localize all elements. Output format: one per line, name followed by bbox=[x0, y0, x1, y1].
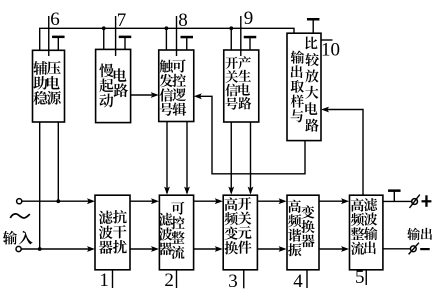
svg-text:3: 3 bbox=[228, 271, 238, 292]
svg-text:4: 4 bbox=[293, 271, 303, 292]
svg-text:9: 9 bbox=[244, 8, 254, 29]
svg-text:2: 2 bbox=[164, 270, 174, 291]
svg-text:1: 1 bbox=[99, 270, 109, 291]
svg-text:5: 5 bbox=[355, 267, 365, 288]
svg-text:6: 6 bbox=[50, 9, 60, 30]
svg-text:10: 10 bbox=[321, 40, 340, 61]
svg-text:7: 7 bbox=[117, 10, 127, 31]
svg-text:8: 8 bbox=[178, 10, 188, 31]
